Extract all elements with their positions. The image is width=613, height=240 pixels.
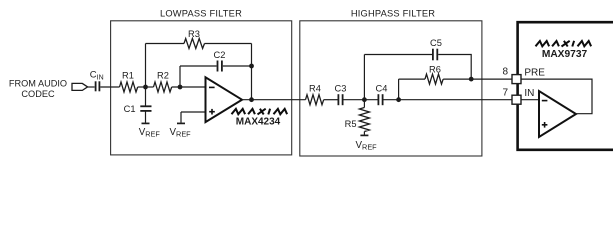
wire C4 to pin 7 (384, 99, 513, 101)
wire C3 to node1 (344, 99, 378, 101)
svg-text:C4: C4 (376, 83, 388, 93)
wire IN to amp (521, 99, 539, 101)
pin 8 square (512, 75, 521, 84)
svg-text:R2: R2 (157, 70, 169, 80)
wire connector to CIN (88, 86, 95, 88)
capacitor C1 (145, 87, 147, 106)
amp minus sign (542, 100, 548, 102)
svg-text:MAX9737: MAX9737 (542, 49, 588, 60)
capacitor C3 (337, 94, 339, 105)
op-amp U1 minus sign (209, 86, 215, 88)
HIGHPASS FILTER box (300, 21, 482, 156)
wire R6 to pin 8 (443, 78, 512, 80)
wire R4 to C3 (324, 99, 338, 101)
node junction R2/C2 (178, 85, 183, 90)
node junction C4/R6 (396, 97, 401, 102)
svg-text:MAX4234: MAX4234 (236, 117, 281, 128)
wire riser R3 left (145, 44, 147, 88)
svg-text:R3: R3 (188, 29, 200, 39)
MAXIM logo MAX9737 (536, 41, 592, 47)
input connector (72, 83, 88, 90)
svg-text:VREF: VREF (356, 140, 378, 152)
wire R3 right lead (205, 43, 252, 45)
capacitor C5 (432, 49, 434, 61)
resistor R5 vertical (363, 100, 365, 108)
VREF terminal under C1 (142, 122, 150, 124)
VREF stub for non-inverting input (181, 111, 206, 113)
svg-text:LOWPASS FILTER: LOWPASS FILTER (160, 8, 242, 18)
svg-text:R5: R5 (345, 119, 357, 129)
wire R2 to op-amp inverting input (172, 86, 206, 88)
svg-text:CODEC: CODEC (21, 89, 55, 99)
op-amp U1 triangle (206, 77, 243, 122)
svg-text:PRE: PRE (524, 68, 545, 79)
wire op-amp output to R4 (242, 99, 306, 101)
wire CIN to R1 (100, 86, 119, 88)
svg-text:7: 7 (502, 87, 508, 98)
capacitor C4 (377, 94, 379, 105)
svg-text:C3: C3 (335, 83, 347, 93)
MAX9737 box border (518, 22, 613, 150)
resistor R2 (154, 82, 172, 92)
resistor R4 (306, 95, 324, 105)
svg-text:8: 8 (502, 66, 508, 77)
wire C2 left lead (180, 65, 217, 67)
svg-text:R6: R6 (429, 65, 441, 75)
op-amp U1 plus sign (209, 111, 215, 113)
svg-text:C1: C1 (124, 104, 136, 114)
resistor R6 (425, 74, 443, 84)
LOWPASS FILTER box (111, 21, 292, 155)
svg-text:FROM AUDIO: FROM AUDIO (9, 78, 67, 88)
amp plus sign (542, 124, 548, 126)
amplifier triangle MAX9737 (539, 91, 576, 137)
wire C5 left lead (364, 54, 432, 56)
resistor R1 (120, 82, 138, 92)
svg-text:R1: R1 (122, 70, 134, 80)
node junction C5/R6 (469, 77, 474, 82)
node junction C3/C4/R5/C5 (362, 97, 367, 102)
MAXIM logo MAX4234 (232, 109, 288, 115)
VREF terminal under R5 (360, 134, 368, 136)
wire riser R3/C2 to output (251, 44, 253, 100)
svg-text:C5: C5 (430, 38, 442, 48)
node junction C2/R3 riser (249, 64, 254, 69)
svg-text:IN: IN (524, 88, 534, 99)
wire C2 right lead (223, 65, 252, 67)
wire R3 left lead (146, 43, 185, 45)
resistor R3 (184, 39, 205, 49)
node junction R1/R2/C1/R3 (143, 85, 148, 90)
pin 7 square (512, 95, 521, 104)
capacitor CIN (95, 81, 97, 91)
wire riser node to C2 row (179, 66, 181, 87)
svg-text:VREF: VREF (170, 127, 192, 139)
wire PRE feedback (521, 79, 592, 114)
svg-text:HIGHPASS FILTER: HIGHPASS FILTER (351, 8, 435, 18)
node junction output (249, 97, 254, 102)
wire C5 right lead down to R6 row (438, 55, 471, 80)
svg-text:R4: R4 (309, 83, 321, 93)
wire riser node1 to C5 row (363, 55, 365, 100)
capacitor C2 (217, 61, 219, 72)
wire node2 riser to R6 (399, 78, 425, 80)
wire riser node2 to R6 row (398, 79, 400, 100)
svg-text:C2: C2 (214, 50, 226, 60)
wire R1 to R2 (138, 86, 154, 88)
svg-text:VREF: VREF (139, 127, 161, 139)
